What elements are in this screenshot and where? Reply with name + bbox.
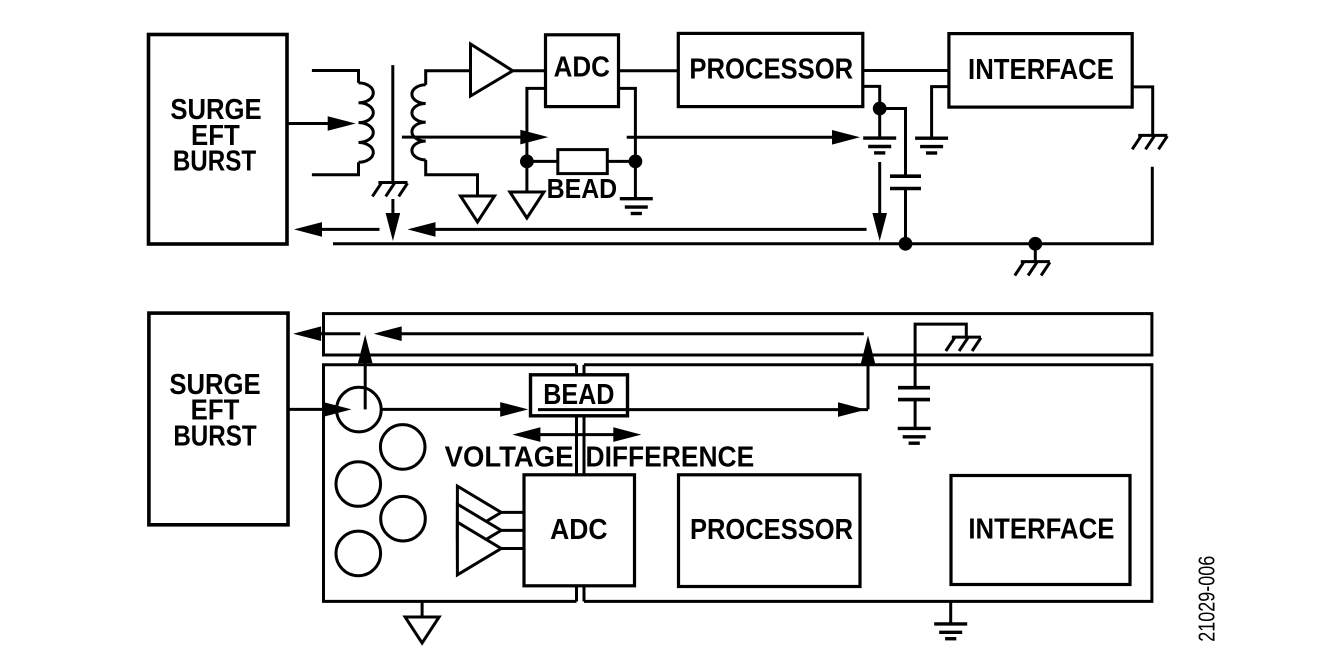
wire voltage difference double arrow [512,427,641,442]
svg-text:DIFFERENCE: DIFFERENCE [586,442,755,474]
wire center tap arrow to ADC ground [402,130,548,145]
svg-text:ADC: ADC [554,52,610,84]
box main chassis outline [324,365,1152,602]
wire bead to ADC right [583,416,586,475]
wire node to capacitor [880,109,906,177]
op-amp cluster A3 [457,504,501,557]
node junction capacitor on rail [899,237,913,251]
wire mid arrow to processor ground [627,130,860,145]
box PROCESSOR (top) [678,33,863,106]
box SURGE EFT BURST (bottom) [149,313,288,525]
wire barrier shield line [391,65,394,182]
box ADC (bottom) [524,475,635,586]
wire box bottom to analog triangle [421,601,424,617]
node junction right of bead [629,155,643,169]
box ground strip [324,314,1152,355]
wire ADC left to bead node [527,88,546,161]
svg-text:ADC: ADC [550,514,607,546]
svg-text:21029-006: 21029-006 [1194,556,1220,642]
capacitor C2 [898,388,930,400]
wire right drop to bottom rail [333,167,1152,244]
ground earth below processor [863,138,896,153]
resistor BEAD (bottom) [531,375,628,416]
ground earth left of interface [915,138,948,153]
wire rail to chassis stub [1034,244,1037,262]
wire secondary bottom lead [426,160,478,196]
svg-text:PROCESSOR: PROCESSOR [690,514,853,546]
wire bead drop left [575,365,578,376]
wire amp to ADC [513,69,546,72]
node circle 1 [337,387,382,432]
box PROCESSOR (bottom) [679,475,861,587]
wire down arrow to bottom rail [872,162,887,241]
wire up arrow from circle [358,335,373,410]
wire INTERFACE left to earth ground [932,87,949,139]
wire right node to earth ground [634,161,637,198]
ground earth below box [934,624,967,639]
op-amp cluster A4 [457,522,501,575]
svg-text:PROCESSOR: PROCESSOR [689,53,853,85]
svg-text:BEAD: BEAD [547,173,618,204]
svg-text:BURST: BURST [173,146,257,178]
wire primary bottom lead [312,162,359,174]
wire PROCESSOR to ground node [863,86,880,137]
svg-text:INTERFACE: INTERFACE [968,54,1114,86]
svg-text:BURST: BURST [173,420,257,452]
ground chassis below rail [1015,262,1050,276]
ground analog triangle below left node [510,192,544,218]
wire amp outputs to ADC [501,512,524,548]
wire capacitor to earth ground [914,400,917,429]
node circle 3 [336,462,381,507]
wire ADC bottom right to box [583,586,586,602]
wire circle to bead arrow [380,402,528,417]
wire bead left lead [527,160,558,163]
resistor BEAD (top) [547,150,618,204]
ground earth below right node [620,199,653,214]
wire bead to ADC left [575,416,578,475]
wire bead right lead [607,160,635,163]
wire capacitor to bottom rail [904,189,907,244]
box SURGE EFT BURST (top) [149,35,288,245]
wire arrow surge into circle [288,402,352,417]
wire up arrow right side [861,336,876,410]
ground chassis in strip [946,337,981,351]
wire secondary top lead [426,71,471,85]
ground chassis at barrier [372,183,407,197]
wire ADC to PROCESSOR [619,69,679,72]
svg-text:VOLTAGE: VOLTAGE [445,442,574,474]
wire strip to chassis cap [915,324,966,386]
op-amp A1 [471,44,513,96]
wire ADC bottom left to box [575,586,578,602]
node circle 2 [380,425,425,470]
node circle 5 [336,531,381,576]
wire bead drop right [583,365,586,376]
wire primary top lead [312,71,359,83]
wire return line with arrow (bottom) [374,326,864,341]
node junction below processor [873,102,887,116]
node junction chassis on rail [1028,237,1042,251]
transformer T1 secondary winding [412,85,426,160]
wire return arrow into surge (bottom) [293,326,360,341]
wire return line with arrow [408,222,867,237]
box INTERFACE (top) [949,34,1132,108]
wire down arrow below barrier [386,199,401,241]
label voltage difference [445,442,755,474]
wire left node to analog ground [525,161,528,192]
ground earth below capacitor [898,428,931,443]
ground analog triangle below box [405,617,439,643]
transformer T1 primary winding [359,83,374,162]
node junction left of bead [520,155,534,169]
capacitor C1 [890,176,921,188]
node circle 4 [381,496,426,541]
svg-text:INTERFACE: INTERFACE [968,514,1114,546]
ground analog triangle below secondary [461,196,495,222]
wire bead to right wall arrow [538,402,868,417]
wire return arrow into surge box [294,222,380,237]
wire PROCESSOR to INTERFACE [863,69,949,72]
wire box bottom to earth ground [949,601,952,624]
box ADC (top) [546,35,619,107]
wire ADC right to bead node [619,88,636,161]
ground chassis right of interface [1132,135,1167,149]
wire arrow surge into primary [287,116,356,131]
box INTERFACE (bottom) [951,476,1130,585]
svg-text:BEAD: BEAD [543,379,614,411]
wire INTERFACE right to chassis ground [1132,87,1153,135]
op-amp cluster A2 [457,486,501,539]
